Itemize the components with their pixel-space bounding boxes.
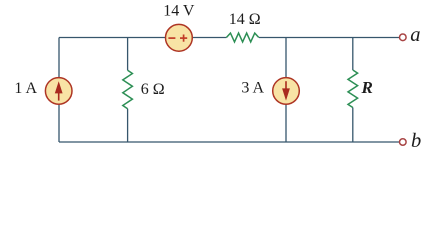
wire top rail from 14-ohm resistor to terminal a — [259, 37, 399, 39]
wire top rail from voltage source to 14-ohm resistor — [192, 37, 226, 39]
wire 6-ohm branch lower segment — [127, 109, 129, 142]
wire 3 A branch upper segment — [285, 38, 287, 79]
resistor R (vertical zigzag) — [348, 70, 358, 107]
voltage source V1 14 V body — [166, 24, 193, 51]
voltage source V1 polarity signs — [168, 35, 187, 42]
wire left branch lower segment — [58, 104, 60, 142]
resistor 14 ohm (horizontal zigzag) — [226, 33, 258, 42]
wire R branch upper segment — [352, 38, 354, 71]
wire 3 A branch lower segment — [285, 104, 287, 142]
svg-text:14 V: 14 V — [163, 3, 195, 20]
svg-text:b: b — [411, 130, 421, 152]
wire top rail from left corner to voltage source — [59, 37, 166, 39]
wire R branch lower segment — [352, 108, 354, 143]
current source I2 arrow (down) — [285, 81, 287, 91]
svg-text:R: R — [361, 78, 373, 97]
terminal a (open circle) — [400, 34, 407, 41]
current source I1 arrow (up) — [58, 91, 60, 101]
current source I2 3 A body — [273, 78, 300, 105]
terminal b (open circle) — [400, 139, 407, 146]
svg-text:3 A: 3 A — [241, 80, 264, 97]
wire 6-ohm branch upper segment — [127, 38, 129, 71]
svg-text:1 A: 1 A — [14, 80, 37, 97]
svg-text:6 Ω: 6 Ω — [141, 81, 165, 98]
resistor 6 ohm (vertical zigzag) — [123, 70, 133, 108]
wire left branch upper segment — [58, 38, 60, 79]
svg-text:14 Ω: 14 Ω — [229, 11, 261, 28]
svg-text:a: a — [410, 24, 420, 46]
wire bottom rail — [59, 141, 399, 143]
current source I1 1 A body — [45, 78, 72, 105]
